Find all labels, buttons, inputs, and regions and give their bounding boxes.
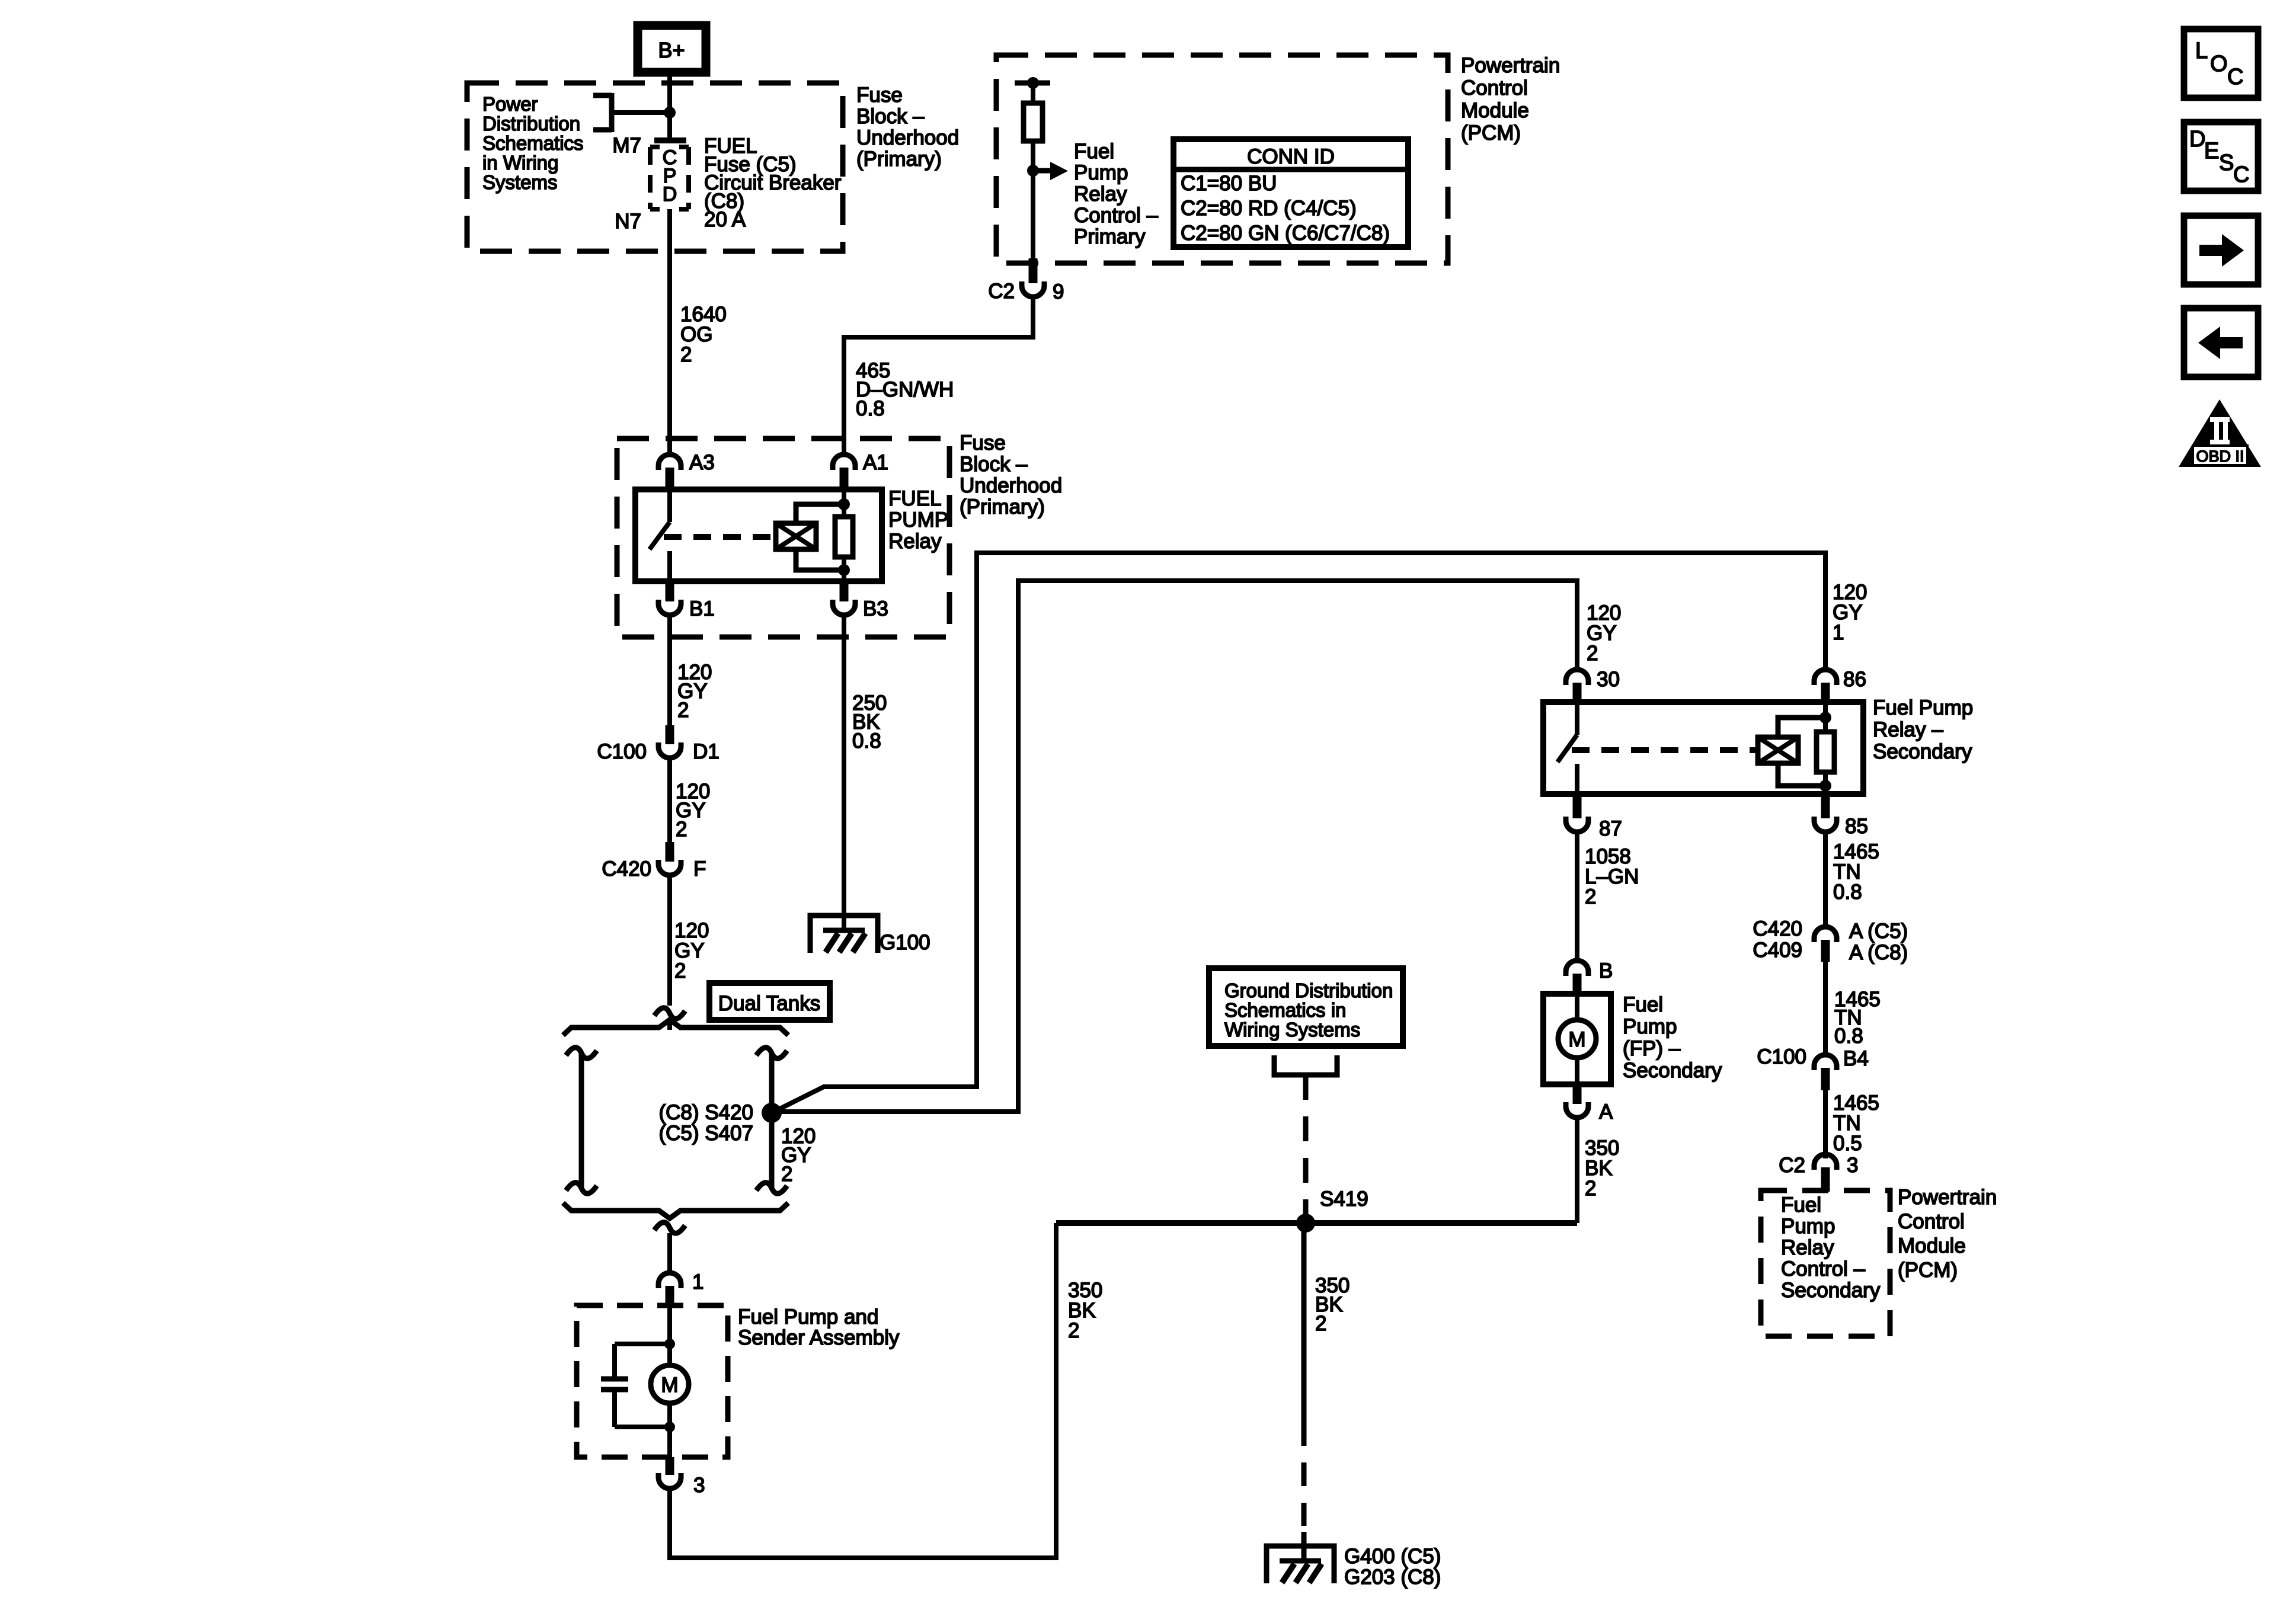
svg-text:E: E [2204,139,2219,164]
svg-text:in Wiring: in Wiring [482,152,558,174]
svg-text:2: 2 [1068,1319,1079,1342]
svg-text:2: 2 [1585,885,1596,908]
svg-text:CONN ID: CONN ID [1247,145,1335,168]
svg-text:Power: Power [482,93,538,115]
svg-text:Underhood: Underhood [960,474,1062,497]
svg-text:(PCM): (PCM) [1461,121,1521,145]
svg-text:9: 9 [1053,280,1064,303]
svg-text:C1=80 BU: C1=80 BU [1181,172,1277,195]
svg-text:G203 (C8): G203 (C8) [1344,1566,1441,1589]
svg-text:(C8) S420: (C8) S420 [658,1101,753,1124]
svg-text:D1: D1 [693,740,720,763]
svg-text:Block –: Block – [960,453,1028,476]
svg-text:85: 85 [1845,815,1868,838]
svg-text:2: 2 [677,699,689,722]
svg-text:Fuse: Fuse [960,431,1006,454]
svg-text:B3: B3 [863,597,888,620]
svg-text:L: L [2195,39,2208,63]
svg-text:M7: M7 [612,134,641,157]
svg-text:(C5) S407: (C5) S407 [658,1122,753,1145]
svg-text:0.8: 0.8 [856,397,885,420]
svg-text:86: 86 [1843,668,1866,691]
svg-text:C420: C420 [602,857,651,881]
svg-text:FUEL: FUEL [888,487,941,510]
svg-text:M: M [661,1374,678,1397]
svg-text:A1: A1 [863,451,888,474]
svg-text:20 A: 20 A [704,208,746,231]
svg-text:Fuel Pump and: Fuel Pump and [738,1305,878,1329]
svg-text:B+: B+ [658,38,685,62]
svg-text:Secondary: Secondary [1873,740,1972,763]
svg-text:Pump: Pump [1781,1215,1835,1238]
svg-text:A: A [1599,1100,1613,1124]
svg-text:0.5: 0.5 [1833,1132,1862,1155]
svg-text:F: F [693,857,706,881]
svg-text:0.8: 0.8 [1833,881,1862,904]
svg-text:G400 (C5): G400 (C5) [1344,1545,1441,1568]
svg-text:D: D [2189,127,2205,152]
svg-text:Relay –: Relay – [1873,718,1943,741]
svg-text:Ground Distribution: Ground Distribution [1224,980,1393,1001]
svg-text:Control: Control [1898,1210,1965,1233]
svg-text:C: C [2233,162,2249,187]
svg-text:Underhood: Underhood [856,126,959,149]
svg-text:2: 2 [1587,642,1598,665]
svg-text:Relay: Relay [888,530,942,553]
svg-text:2: 2 [1585,1177,1596,1200]
svg-text:C2: C2 [1779,1154,1805,1177]
svg-text:2: 2 [674,959,686,982]
svg-text:Fuel: Fuel [1781,1193,1821,1217]
svg-text:(PCM): (PCM) [1898,1259,1958,1282]
svg-text:Module: Module [1461,99,1529,122]
svg-text:30: 30 [1597,668,1620,691]
svg-text:N7: N7 [615,210,641,233]
svg-text:M: M [1568,1028,1585,1051]
svg-text:(FP) –: (FP) – [1623,1037,1681,1060]
svg-text:S419: S419 [1320,1188,1368,1211]
svg-text:Relay: Relay [1074,183,1127,206]
svg-text:Dual Tanks: Dual Tanks [718,992,821,1015]
svg-text:Control –: Control – [1781,1257,1866,1281]
svg-text:Module: Module [1898,1234,1966,1257]
svg-text:G100: G100 [880,931,930,954]
svg-text:Secondary: Secondary [1623,1059,1722,1082]
svg-text:C: C [2227,65,2243,89]
svg-text:Schematics: Schematics [482,132,584,154]
svg-text:Powertrain: Powertrain [1461,54,1560,77]
svg-text:D: D [663,183,677,206]
svg-text:Wiring Systems: Wiring Systems [1224,1019,1360,1041]
svg-text:2: 2 [676,818,687,841]
svg-text:S: S [2219,151,2234,175]
svg-text:B4: B4 [1843,1047,1869,1070]
svg-text:C2=80 GN (C6/C7/C8): C2=80 GN (C6/C7/C8) [1181,222,1390,245]
svg-text:Schematics in: Schematics in [1224,999,1346,1021]
svg-text:C100: C100 [597,740,647,763]
svg-text:C100: C100 [1757,1045,1806,1068]
svg-text:C2: C2 [988,280,1015,303]
svg-text:1: 1 [1833,621,1844,644]
svg-text:2: 2 [680,343,692,366]
svg-text:3: 3 [1847,1154,1858,1177]
svg-text:OBD II: OBD II [2196,447,2244,465]
svg-text:Fuel: Fuel [1074,140,1114,163]
svg-text:Distribution: Distribution [482,113,580,135]
svg-text:Pump: Pump [1623,1015,1677,1038]
svg-text:C420: C420 [1753,917,1802,940]
svg-text:0.8: 0.8 [1834,1025,1863,1048]
svg-text:Fuse: Fuse [856,84,903,107]
svg-text:B: B [1599,959,1613,982]
svg-text:A (C5): A (C5) [1849,920,1908,943]
svg-text:Systems: Systems [482,171,558,193]
svg-text:3: 3 [693,1474,705,1497]
svg-text:Pump: Pump [1074,161,1128,184]
svg-text:Primary: Primary [1074,225,1146,248]
svg-text:0.8: 0.8 [852,729,881,753]
svg-text:C2=80 RD (C4/C5): C2=80 RD (C4/C5) [1181,197,1357,220]
svg-text:(Primary): (Primary) [856,148,942,171]
svg-text:2: 2 [781,1163,792,1186]
svg-text:Sender Assembly: Sender Assembly [738,1326,900,1349]
svg-text:Secondary: Secondary [1781,1279,1881,1302]
svg-text:Powertrain: Powertrain [1898,1186,1997,1209]
svg-text:2: 2 [1315,1312,1326,1335]
svg-text:Control: Control [1461,76,1528,100]
svg-text:Fuel Pump: Fuel Pump [1873,696,1973,719]
svg-text:Relay: Relay [1781,1236,1834,1259]
svg-text:Block –: Block – [856,105,925,128]
svg-text:O: O [2210,52,2228,76]
svg-text:A (C8): A (C8) [1849,941,1908,964]
svg-text:(Primary): (Primary) [960,495,1045,518]
svg-text:87: 87 [1599,817,1622,840]
svg-text:B1: B1 [689,597,715,620]
svg-text:1: 1 [692,1270,703,1294]
svg-text:Fuel: Fuel [1623,993,1663,1016]
svg-text:A3: A3 [689,451,715,474]
svg-text:C409: C409 [1753,939,1802,962]
svg-text:PUMP: PUMP [888,508,948,532]
svg-text:Control –: Control – [1074,204,1159,227]
